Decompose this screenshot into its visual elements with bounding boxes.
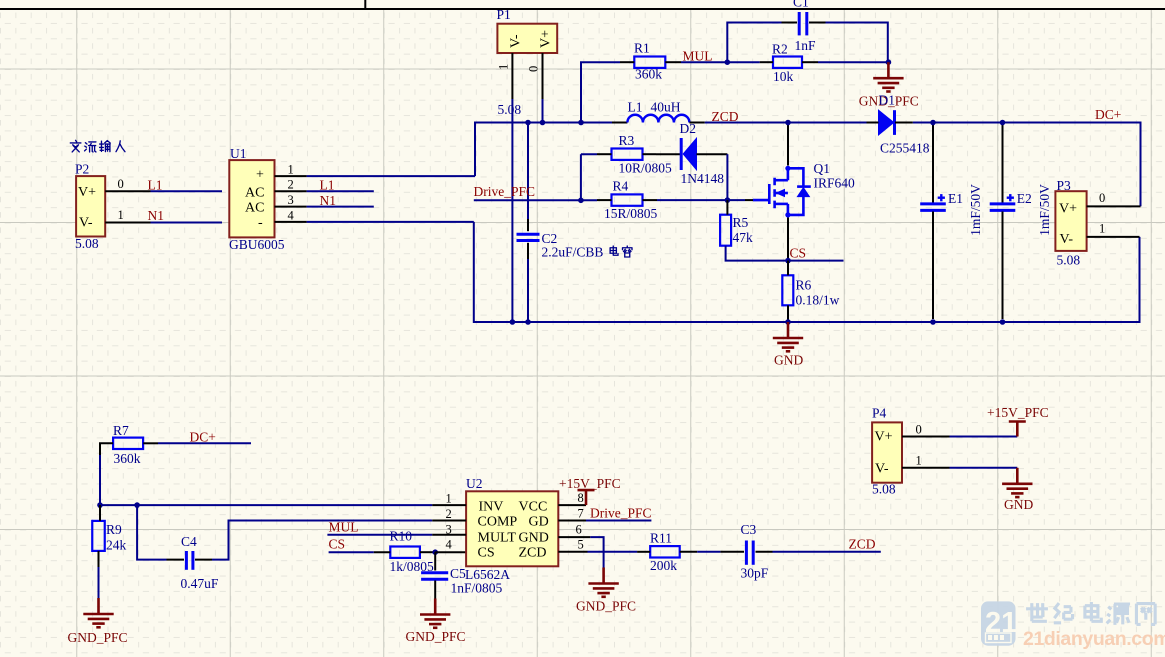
svg-text:4: 4: [446, 538, 453, 552]
wire AC-N bottom rail: [474, 222, 1140, 322]
pin R7 left + corner to INV node: [100, 443, 113, 505]
capacitor E2 polarized: [1002, 125, 1004, 203]
svg-text:0: 0: [527, 66, 541, 72]
svg-text:21dianyuan.com: 21dianyuan.com: [1023, 628, 1165, 650]
capacitor C4: [186, 551, 193, 570]
svg-text:R2: R2: [772, 42, 788, 57]
transistor Q1 IRF640: [753, 168, 811, 215]
pin C2 top: [527, 219, 529, 231]
diode D1 C255418: [879, 110, 895, 135]
svg-text:IRF640: IRF640: [814, 176, 856, 191]
resistor R4: [612, 194, 643, 205]
svg-text:R3: R3: [619, 133, 635, 148]
pin U1 2: [275, 190, 307, 192]
resistor R2: [773, 57, 802, 68]
svg-text:GND_PFC: GND_PFC: [406, 629, 466, 644]
svg-text:GBU6005: GBU6005: [229, 237, 285, 252]
pin P2 1 (V-): [105, 222, 150, 224]
pin P3 1: [1087, 236, 1140, 238]
svg-text:R5: R5: [733, 215, 749, 230]
inductor L1: [627, 115, 689, 123]
svg-text:ZCD: ZCD: [519, 545, 547, 560]
pin U2 6 GND: [558, 536, 590, 538]
pin C3 left: [720, 551, 744, 553]
plus sign E1: [938, 194, 945, 201]
svg-text:CS: CS: [790, 246, 807, 261]
pin U1 1: [275, 175, 307, 177]
watermark 21 shiji dianyuan wang CJK: [1026, 603, 1048, 621]
svg-text:0: 0: [118, 177, 124, 191]
wire ZCD pin to R11: [588, 551, 638, 553]
wire P4 V- to GND: [950, 467, 1018, 469]
pin R2 left: [760, 61, 773, 63]
wire R3-R4 left vertical tie: [581, 154, 597, 200]
junction R1 riser / top rail: [578, 120, 584, 126]
svg-text:V+: V+: [1059, 202, 1077, 217]
svg-text:8: 8: [578, 491, 584, 505]
svg-text:E1: E1: [948, 191, 963, 206]
svg-text:47k: 47k: [733, 230, 754, 245]
wire C3 to ZCD label: [773, 551, 881, 553]
pin L1 left: [612, 122, 627, 124]
power +15V_PFC (U2): [578, 490, 595, 505]
svg-text:AC: AC: [245, 186, 264, 201]
svg-text:GND_PFC: GND_PFC: [68, 630, 128, 645]
svg-text:1N4148: 1N4148: [681, 171, 725, 186]
junction R4/D2/R5: [725, 197, 731, 203]
resistor R1: [634, 57, 665, 68]
wire P1 pin0 (V+) to top rail: [542, 99, 544, 123]
svg-text:4: 4: [288, 208, 295, 222]
resistor R3: [612, 149, 643, 160]
svg-text:C255418: C255418: [880, 141, 930, 156]
svg-text:V-: V-: [79, 216, 93, 231]
wire R7 DC+ stub: [158, 442, 251, 444]
sheet border top edge: [0, 8, 1165, 10]
junction E2 bottom rail: [1000, 319, 1006, 325]
wire U1 pin2 (L1 net): [307, 190, 374, 192]
svg-text:5.08: 5.08: [498, 102, 522, 117]
svg-text:N1: N1: [320, 193, 337, 208]
svg-text:DC+: DC+: [190, 430, 216, 445]
svg-text:C3: C3: [741, 522, 757, 537]
pin U1 3: [275, 206, 307, 208]
svg-text:L1: L1: [148, 178, 163, 193]
svg-text:0: 0: [916, 423, 922, 437]
svg-text:2: 2: [288, 178, 294, 192]
junction R10/C5/U2 pin4: [432, 549, 438, 555]
ground GND_PFC (top): [873, 62, 903, 91]
pin R3 right: [643, 153, 657, 155]
junction C1 left branch: [725, 59, 731, 65]
svg-text:ZCD: ZCD: [849, 537, 876, 552]
svg-text:R11: R11: [650, 531, 672, 546]
pin P1 1 (V-): [511, 53, 513, 99]
svg-text:5: 5: [578, 538, 584, 552]
pin R9 bottom: [98, 551, 100, 567]
svg-text:MUL: MUL: [329, 520, 359, 535]
ground GND_PFC (R9): [83, 598, 113, 627]
wire R1 riser from top rail: [581, 62, 620, 122]
pin P2 0 (V+): [105, 190, 150, 192]
pin R3 left: [597, 153, 612, 155]
wire P1 pin1 (V-) down to bottom rail: [511, 99, 513, 322]
svg-text:1mF/50V: 1mF/50V: [968, 184, 983, 236]
junction R7/R9/INV: [97, 502, 103, 508]
svg-text:VCC: VCC: [519, 499, 548, 514]
wire P2 V- (N1 net): [151, 222, 223, 224]
svg-text:CS: CS: [478, 545, 495, 560]
pin U2 3: [432, 534, 466, 536]
svg-text:-: -: [258, 216, 263, 231]
svg-text:0: 0: [1099, 191, 1105, 205]
junction C2 top: [525, 120, 531, 126]
svg-text:R4: R4: [613, 179, 629, 194]
svg-text:INV: INV: [479, 499, 504, 514]
wire Drive_PFC to R4: [474, 199, 597, 201]
ground GND (P4): [1002, 468, 1032, 497]
svg-text:Drive_PFC: Drive_PFC: [590, 505, 652, 520]
pin U2 4 stub: [435, 551, 466, 553]
svg-text:1: 1: [497, 64, 511, 70]
svg-text:21: 21: [985, 607, 1017, 639]
wire P4 V+ to +15V: [950, 436, 1018, 438]
svg-text:V+: V+: [78, 185, 96, 200]
svg-text:D1: D1: [879, 93, 896, 108]
junction E1 top rail: [930, 120, 936, 126]
svg-text:GD: GD: [529, 515, 549, 530]
svg-text:R1: R1: [634, 41, 650, 56]
pin D1 left: [867, 122, 879, 124]
wire P2 V+ (L1 net): [151, 190, 223, 192]
svg-text:1mF/50V: 1mF/50V: [1037, 184, 1052, 236]
junction E1 bottom rail: [930, 319, 936, 325]
svg-text:C5: C5: [450, 566, 466, 581]
wire R9 to ground: [98, 567, 100, 600]
svg-text:5.08: 5.08: [1057, 253, 1081, 268]
svg-text:GND: GND: [519, 531, 549, 546]
svg-text:V+: V+: [875, 430, 893, 445]
wire C1 branch top loop: [727, 23, 888, 63]
resistor R6: [782, 275, 793, 305]
wire C5 to ground: [434, 599, 436, 601]
svg-text:30pF: 30pF: [741, 566, 769, 581]
svg-text:U1: U1: [230, 146, 247, 161]
svg-text:1: 1: [288, 163, 294, 177]
ground GND_PFC (C5): [420, 599, 450, 628]
svg-text:C4: C4: [181, 534, 197, 549]
pin R10 right: [420, 551, 435, 553]
svg-text:Q1: Q1: [814, 161, 831, 176]
pin U2 5 ZCD: [558, 551, 587, 553]
junction C2 bottom: [525, 319, 531, 325]
pin R5 top: [726, 200, 728, 215]
pin P4 1: [902, 467, 950, 469]
svg-text:0.18/1w: 0.18/1w: [796, 293, 840, 308]
svg-text:R6: R6: [796, 278, 812, 293]
pin D2 left: [656, 153, 680, 155]
wire C4 branch left: [137, 505, 166, 559]
svg-text:L6562A: L6562A: [465, 567, 510, 582]
wire MULT net: [327, 534, 432, 536]
pin C4 right: [195, 559, 212, 561]
capacitor C5: [434, 552, 436, 570]
resistor R7: [113, 438, 143, 449]
wire CS stub right: [788, 260, 844, 262]
pin D1 right: [895, 122, 913, 124]
svg-text:R7: R7: [113, 423, 129, 438]
wire INV net to U2 pin1: [100, 504, 432, 506]
wire CS net to R10: [329, 551, 374, 553]
svg-text:DC+: DC+: [1095, 107, 1121, 122]
svg-text:L1: L1: [628, 100, 643, 115]
wire R2 to ground corner: [818, 61, 888, 63]
junction R6 / bottom rail: [785, 319, 791, 325]
svg-text:1nF: 1nF: [795, 38, 817, 53]
pin R5 bottom + wire to CS node: [726, 246, 788, 261]
svg-text:P2: P2: [75, 162, 89, 177]
capacitor C1: [799, 12, 807, 35]
svg-text:24k: 24k: [106, 538, 127, 553]
pin Q1 drain: [787, 125, 789, 166]
wire R4 to Q1 gate: [657, 199, 745, 201]
pin R1 right: [665, 61, 681, 63]
resistor R10: [390, 547, 420, 558]
pin R11 right: [680, 551, 698, 553]
pin C2 bottom: [527, 243, 529, 259]
svg-text:Drive_PFC: Drive_PFC: [474, 184, 536, 199]
wire Drive_PFC stub (U2): [586, 520, 651, 522]
pin R1 left: [620, 61, 634, 63]
svg-text:P1: P1: [497, 7, 511, 22]
resistor R9: [92, 521, 105, 551]
svg-text:V-: V-: [509, 34, 524, 48]
svg-text:U2: U2: [466, 476, 483, 491]
svg-text:V-: V-: [875, 462, 889, 477]
wire U1 pin4 to bottom rail: [307, 221, 474, 223]
svg-text:3: 3: [446, 522, 452, 536]
pin C4 left: [167, 559, 185, 561]
svg-text:200k: 200k: [650, 558, 677, 573]
svg-text:0.47uF: 0.47uF: [181, 576, 219, 591]
svg-text:CS: CS: [329, 537, 346, 552]
watermark 21dianyuan logo box: [981, 601, 1017, 645]
label AC input (jiaoliu shuru): [70, 140, 81, 152]
svg-text:1: 1: [1099, 222, 1105, 236]
svg-text:GND: GND: [1004, 497, 1033, 512]
wire C2 branch from top rail to bottom rail: [527, 123, 529, 323]
junction P1 V+ / top rail: [540, 120, 546, 126]
plus sign E2: [1007, 194, 1014, 201]
pin R4 left: [597, 199, 612, 201]
svg-text:N1: N1: [148, 208, 165, 223]
pin D2 right: [697, 153, 728, 155]
svg-text:D2: D2: [680, 121, 697, 136]
svg-text:1nF/0805: 1nF/0805: [451, 581, 503, 596]
wire MUL net R1-R2: [681, 61, 760, 63]
svg-text:2.2uF/CBB: 2.2uF/CBB: [542, 245, 604, 260]
ground GND_PFC (U2): [588, 568, 618, 597]
wire C4 to COMP: [212, 521, 432, 560]
diode D2 1N4148: [681, 138, 696, 170]
pin R11 left: [637, 551, 650, 553]
svg-text:5.08: 5.08: [75, 236, 99, 251]
pin P1 0 (V+): [542, 53, 544, 99]
svg-text:V+: V+: [539, 30, 554, 48]
wire U2 GND to ground: [590, 537, 603, 568]
wire R11 to C3: [697, 551, 720, 553]
junction Q1 drain / top rail: [785, 120, 791, 126]
pin R4 right: [643, 199, 658, 201]
svg-text:L1: L1: [320, 178, 335, 193]
ground GND (power stage): [773, 322, 803, 351]
capacitor C2: [517, 234, 540, 240]
svg-text:P4: P4: [872, 406, 887, 421]
svg-text:1: 1: [916, 454, 922, 468]
junction E2 top rail: [1000, 120, 1006, 126]
svg-text:360k: 360k: [635, 67, 662, 82]
wire U1 pin1 to rail riser: [307, 175, 475, 177]
wire AC-L rail (top) from U1+ riser to DC+ corner: [475, 123, 1141, 207]
svg-text:C1: C1: [793, 0, 809, 10]
pin L1 right: [689, 122, 704, 124]
junction C1 right / ground: [886, 59, 892, 65]
svg-text:5.08: 5.08: [872, 482, 896, 497]
svg-text:15R/0805: 15R/0805: [604, 206, 658, 221]
resistor R11: [650, 546, 680, 557]
pin U2 7 GD: [558, 520, 586, 522]
wire U1 pin3 (N1 net): [307, 206, 374, 208]
svg-text:3: 3: [288, 193, 294, 207]
junction P1 V- / bottom rail: [510, 319, 516, 325]
svg-text:V-: V-: [1060, 232, 1074, 247]
pin C1 right: [809, 22, 826, 24]
svg-text:6: 6: [576, 522, 582, 536]
svg-text:R10: R10: [390, 529, 413, 544]
svg-text:10k: 10k: [773, 69, 794, 84]
pin Q1 gate: [745, 199, 753, 201]
pin U2 2: [432, 520, 466, 522]
svg-text:COMP: COMP: [478, 515, 518, 530]
svg-text:+: +: [256, 168, 264, 183]
pin R6 bottom: [787, 305, 789, 322]
pin U2 8 VCC: [558, 504, 586, 506]
svg-text:1: 1: [446, 492, 452, 506]
svg-text:360k: 360k: [114, 451, 141, 466]
capacitor C3: [746, 541, 753, 565]
svg-text:GND: GND: [774, 353, 803, 368]
pin R2 right: [802, 61, 818, 63]
pin C1 left: [782, 22, 798, 24]
junction Drive/R3/R4: [578, 198, 584, 204]
value C2 CJK dianrong: [610, 246, 618, 255]
svg-text:E2: E2: [1017, 191, 1032, 206]
svg-text:ZCD: ZCD: [712, 109, 739, 124]
pin U1 4: [275, 221, 307, 223]
pin R6 top: [787, 261, 789, 276]
pin Q1 source: [787, 218, 789, 261]
pin C3 right: [756, 551, 773, 553]
svg-text:GND_PFC: GND_PFC: [576, 599, 636, 614]
svg-text:+15V_PFC: +15V_PFC: [559, 476, 621, 491]
pin R7 right: [143, 442, 158, 444]
pin P3 0: [1087, 205, 1141, 207]
svg-text:10R/0805: 10R/0805: [619, 161, 673, 176]
svg-text:2: 2: [446, 507, 452, 521]
svg-text:+15V_PFC: +15V_PFC: [987, 405, 1049, 420]
resistor R5: [720, 215, 731, 246]
wire D2 anode down to R4 node: [726, 154, 728, 200]
svg-text:R9: R9: [106, 522, 122, 537]
junction CS node: [785, 258, 791, 264]
svg-text:AC: AC: [245, 201, 264, 216]
junction C4 branch on INV: [134, 502, 140, 508]
svg-text:1: 1: [118, 208, 124, 222]
pin U2 1: [432, 504, 466, 506]
svg-text:7: 7: [578, 506, 584, 520]
pin P4 0: [902, 436, 950, 438]
power +15V_PFC (P4): [1009, 422, 1026, 437]
sheet border zone tick: [364, 0, 366, 9]
pin R10 left: [374, 551, 391, 553]
capacitor E1 polarized: [932, 125, 934, 203]
pin R9 top: [99, 505, 101, 521]
svg-text:MULT: MULT: [478, 531, 517, 546]
svg-text:40uH: 40uH: [651, 100, 681, 115]
